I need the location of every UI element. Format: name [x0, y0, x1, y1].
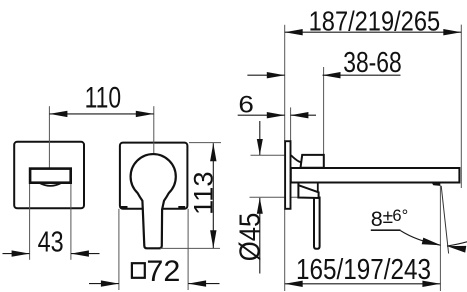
svg-text:187/219/265: 187/219/265 — [309, 6, 441, 37]
svg-text:165/197/243: 165/197/243 — [296, 254, 431, 286]
svg-text:6°: 6° — [392, 207, 408, 225]
svg-text:72: 72 — [146, 255, 180, 288]
svg-text:6: 6 — [238, 92, 254, 119]
svg-text:43: 43 — [38, 227, 64, 259]
svg-text:8: 8 — [371, 207, 383, 231]
svg-text:38-68: 38-68 — [343, 47, 402, 79]
svg-text:Ø45: Ø45 — [234, 213, 266, 262]
svg-text:113: 113 — [189, 171, 219, 215]
svg-text:110: 110 — [85, 82, 122, 115]
